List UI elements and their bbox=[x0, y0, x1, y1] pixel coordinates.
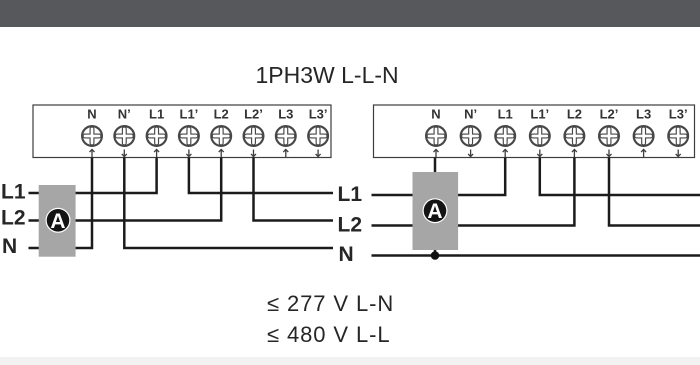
svg-text:L3: L3 bbox=[278, 107, 293, 122]
terminal N' bbox=[114, 107, 134, 157]
svg-text:L1’: L1’ bbox=[180, 107, 199, 122]
svg-text:N’: N’ bbox=[118, 107, 131, 122]
terminal L3 bbox=[634, 107, 654, 158]
svg-text:L2: L2 bbox=[1, 206, 26, 229]
svg-text:L1: L1 bbox=[149, 107, 164, 122]
terminal L3' bbox=[308, 107, 328, 157]
svg-text:N’: N’ bbox=[464, 107, 477, 122]
terminal L2' bbox=[244, 107, 264, 157]
wire: source N to terminal N (left) bbox=[29, 158, 93, 249]
svg-text:1PH3W L-L-N: 1PH3W L-L-N bbox=[256, 62, 399, 88]
terminal N' bbox=[461, 107, 481, 157]
svg-text:N: N bbox=[87, 107, 96, 122]
terminal block TB2 (right) bbox=[374, 105, 695, 158]
terminal L1' bbox=[530, 107, 550, 157]
wire: source L1 to terminal L1 (right) bbox=[372, 158, 506, 196]
svg-text:N: N bbox=[339, 243, 354, 266]
meter A1 badge bbox=[46, 208, 71, 233]
svg-text:A: A bbox=[427, 200, 442, 223]
svg-text:L3’: L3’ bbox=[309, 107, 328, 122]
wire: terminal N' out to load N (left) bbox=[124, 158, 333, 249]
wire: source L1 to terminal L1 (left) bbox=[29, 158, 157, 194]
junction dot on N bus (right) bbox=[431, 251, 440, 260]
svg-text:L1: L1 bbox=[338, 183, 363, 206]
wire: source L2 to terminal L2 (left) bbox=[29, 158, 222, 221]
svg-text:A: A bbox=[50, 210, 65, 233]
terminal block TB1 (left) bbox=[33, 105, 331, 158]
svg-text:L1: L1 bbox=[498, 107, 513, 122]
terminal L1 bbox=[147, 107, 167, 158]
terminal L2 bbox=[211, 107, 231, 158]
wire: terminal L2' out to load L2 (left) bbox=[254, 158, 334, 221]
terminal L3 bbox=[276, 107, 296, 158]
meter A1 body (left gray box) bbox=[39, 185, 76, 257]
terminal N bbox=[82, 107, 102, 158]
svg-text:L2: L2 bbox=[214, 107, 229, 122]
terminal N bbox=[426, 107, 446, 158]
svg-text:L3: L3 bbox=[636, 107, 651, 122]
svg-text:L1: L1 bbox=[1, 181, 26, 204]
wire: terminal L1' out (right, runs off edge) bbox=[540, 158, 700, 196]
svg-text:L2’: L2’ bbox=[244, 107, 263, 122]
wire: terminal L2' out (right, runs off edge) bbox=[609, 158, 700, 226]
meter A2 body (right gray box) bbox=[413, 172, 459, 250]
meter A2 badge bbox=[423, 198, 448, 223]
wire: source L2 to terminal L2 (right) bbox=[372, 158, 575, 226]
svg-text:L2’: L2’ bbox=[600, 107, 619, 122]
terminal L2' bbox=[599, 107, 619, 157]
svg-text:L3’: L3’ bbox=[669, 107, 688, 122]
svg-text:≤ 277 V L-N: ≤ 277 V L-N bbox=[267, 291, 394, 316]
terminal L1' bbox=[179, 107, 199, 157]
top header bar bbox=[0, 0, 700, 27]
terminal L2 bbox=[565, 107, 585, 158]
svg-text:N: N bbox=[431, 107, 440, 122]
terminal L1 bbox=[495, 107, 515, 158]
wire: terminal L1' out to load L1 (left) bbox=[189, 158, 333, 194]
svg-text:L2: L2 bbox=[567, 107, 582, 122]
svg-text:L2: L2 bbox=[338, 214, 363, 237]
svg-text:L1’: L1’ bbox=[530, 107, 549, 122]
terminal L3' bbox=[668, 107, 688, 157]
svg-text:≤ 480 V L-L: ≤ 480 V L-L bbox=[267, 322, 391, 347]
wire: terminal N drop through meter (right) bbox=[434, 158, 437, 256]
bottom faint band bbox=[0, 357, 700, 365]
wire: N bus (right, runs off edge) bbox=[372, 254, 700, 257]
svg-text:N: N bbox=[2, 235, 17, 258]
